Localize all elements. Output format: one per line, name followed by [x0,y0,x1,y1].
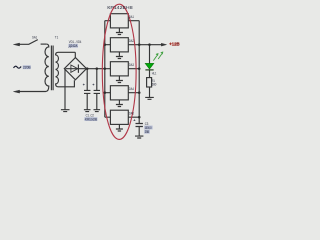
+12V arrow [161,43,166,46]
ground (C2) [94,110,101,112]
svg-text:+12В: +12В [169,41,180,47]
wire secondary top to bridge [74,52,76,57]
ground (DA4) [116,100,123,107]
switch SA1 [13,40,46,46]
svg-text:DA4: DA4 [129,87,134,91]
svg-text:Д242А: Д242А [69,44,78,48]
LED HL1 [145,63,154,69]
transformer T1 secondary winding [56,52,76,87]
wire LED to R1 [149,70,151,77]
capacitor C3 [136,124,143,137]
ground (DA5) [116,124,123,131]
capacitor C2 [94,69,100,110]
wire R1 to ground [149,87,151,97]
resistor R1 [147,78,152,87]
label C3 value highlighted [144,126,152,130]
label D242A highlighted [68,44,78,48]
svg-text:220В: 220В [23,66,31,70]
ground (DA1) [116,28,123,35]
regulator DA2 [110,38,128,52]
svg-text:DA2: DA2 [129,39,134,43]
svg-text:КР142ЕН8: КР142ЕН8 [107,5,133,10]
label C3 voltage highlighted [144,130,150,134]
svg-text:4000,0х16В: 4000,0х16В [85,118,98,122]
wire to LED HL1 [149,45,151,64]
svg-text:DA3: DA3 [129,63,134,67]
LED light arrows [153,52,163,61]
svg-text:680: 680 [152,83,157,87]
ground (C3) [135,136,143,138]
regulator DA3 [110,62,128,76]
left input bus [104,21,106,118]
label C1 value highlighted [84,117,97,121]
ground (bridge) [61,110,70,112]
bridge internal diode [66,68,86,70]
svg-text:HL1: HL1 [152,71,157,75]
svg-text:DA5: DA5 [129,111,134,115]
svg-text:Т1: Т1 [55,36,58,40]
wire bridge + output to regulators [87,68,111,70]
regulator DA1 [110,14,128,28]
regulator DA4 [110,86,128,100]
svg-text:SA1: SA1 [32,36,37,40]
svg-text:25В: 25В [145,130,150,134]
wire bridge left vertex to ground [64,69,66,109]
regulator output branch wires [128,21,139,118]
red selection ellipse [102,4,136,139]
regulator DA5 [110,110,128,124]
+12V output wire [139,44,162,46]
svg-text:DA1: DA1 [129,15,134,19]
right output bus [138,21,140,124]
bridge rectifier VD1..VD4 diamond [64,58,86,80]
transformer core [51,46,53,91]
ground (DA2) [116,52,123,59]
mains arrow (primary bottom) [13,90,19,93]
ground (DA3) [116,76,123,83]
capacitor C1 [84,69,90,110]
junction dots [86,43,151,118]
regulator input branch wires [105,21,111,118]
ground (R1) [145,97,154,99]
AC source symbol ~ [14,66,22,68]
transformer T1 primary winding [17,44,49,91]
label 220V highlighted [23,65,31,69]
ground (C1) [84,110,91,112]
